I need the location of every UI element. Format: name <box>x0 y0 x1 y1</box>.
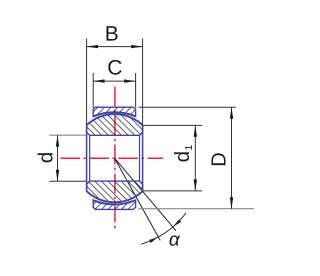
svg-text:d: d <box>35 152 58 163</box>
svg-text:D: D <box>208 152 230 166</box>
svg-text:d1: d1 <box>171 144 195 162</box>
svg-text:α: α <box>169 230 181 251</box>
svg-text:C: C <box>107 56 122 79</box>
svg-text:B: B <box>105 23 119 46</box>
